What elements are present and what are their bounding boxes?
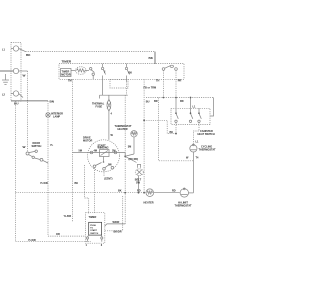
- wire BK/OR vertical: [122, 196, 124, 231]
- neutral supply wire: [0, 70, 13, 72]
- wire contact 3 down: [126, 76, 128, 82]
- svg-text:LAMP: LAMP: [53, 116, 60, 119]
- svg-text:2M: 2M: [112, 150, 115, 153]
- heater line left segment: [16, 192, 147, 194]
- svg-text:HEATER: HEATER: [144, 202, 154, 205]
- wire YL/OR timer to push-to-start: [72, 79, 74, 222]
- svg-text:MOTOR: MOTOR: [83, 140, 92, 143]
- interior lamp DS1: [46, 113, 50, 117]
- svg-text:HEATER: HEATER: [118, 128, 128, 131]
- svg-text:BK: BK: [170, 131, 174, 134]
- motor winding line with terminals 4M 2M: [88, 151, 120, 154]
- wire OR to push-to-start: [48, 235, 86, 237]
- label THERMAL FUSE: [92, 103, 105, 109]
- terminal block TB1: [11, 43, 21, 102]
- push-to-start timer box: [86, 213, 105, 244]
- timer motor M2: [61, 69, 72, 77]
- terminal N: [13, 68, 18, 73]
- svg-text:RD: RD: [180, 100, 184, 103]
- motor protector box: [100, 150, 110, 157]
- junction feed x190.5: [190, 97, 192, 99]
- wire YL/OR lamp to push-to-start: [47, 117, 49, 236]
- junction motor right: [124, 156, 126, 158]
- hi-limit thermostat TS2: [180, 188, 188, 197]
- svg-text:TIMER: TIMER: [62, 60, 72, 64]
- wire contact 3 to cycling thermostat: [193, 123, 199, 145]
- wire motor right to junction: [119, 153, 125, 157]
- wire contact 2 down: [102, 76, 104, 96]
- wire down into timer contact: [154, 52, 156, 64]
- switch blade at L1: [19, 49, 26, 52]
- wire heat switch to cycling thermostat: [159, 98, 194, 161]
- terminal L1: [11, 46, 19, 51]
- timer line contact 4: [162, 65, 177, 70]
- wire BK/OR push-to-start right: [105, 230, 123, 232]
- svg-text:HEAT SWITCH: HEAT SWITCH: [198, 133, 215, 136]
- timer contact 2: [101, 64, 105, 75]
- svg-text:YL: YL: [50, 144, 54, 147]
- wire to interior lamp: [47, 101, 49, 113]
- wire stub below motor: [103, 170, 105, 176]
- heat switch contact 3: [198, 108, 202, 122]
- label THERMOSTAT HEATER: [115, 125, 132, 131]
- wire TH stub to heat switch feed: [163, 70, 165, 97]
- wire fuse top stub: [108, 95, 110, 99]
- belt switch connector pins: [137, 165, 141, 168]
- svg-text:BU: BU: [146, 101, 150, 104]
- wire BK from L1 to timer: [26, 51, 156, 53]
- heater line right segment: [154, 192, 180, 194]
- wire long vertical to push-to-start W/OR: [124, 95, 126, 224]
- heat switch feed wire: [146, 97, 214, 99]
- svg-text:TH: TH: [156, 79, 160, 82]
- switch blade at L2: [19, 94, 23, 98]
- wire centrifugal down: [94, 168, 96, 213]
- terminal L2: [11, 91, 19, 96]
- junction x144 y120: [143, 119, 145, 121]
- svg-text:3M: 3M: [128, 146, 131, 149]
- push-to-start terminals: [86, 235, 103, 242]
- wire motor left to YL/OR line: [73, 152, 88, 154]
- svg-text:YL/OR: YL/OR: [28, 239, 36, 242]
- junction feed x163.5: [163, 97, 165, 99]
- wire W neutral to door switch: [19, 71, 28, 152]
- wire belt switch to heater line: [138, 176, 140, 193]
- svg-text:5M: 5M: [79, 150, 82, 153]
- svg-text:BK: BK: [75, 182, 79, 185]
- wire BU horizontal: [11, 100, 48, 102]
- label HI-LIMIT THERMOSTAT: [175, 202, 192, 208]
- junction heater line: [124, 192, 126, 194]
- svg-text:FB or TRM: FB or TRM: [144, 86, 157, 89]
- label DRIVE MOTOR: [83, 137, 92, 143]
- svg-text:BK/OR: BK/OR: [114, 230, 122, 233]
- svg-text:W: W: [23, 145, 26, 149]
- heat switch contact 1: [175, 98, 179, 123]
- wire junction to belt switch: [125, 156, 136, 162]
- wire to motor junction: [126, 154, 134, 156]
- cycling thermostat TS1: [190, 144, 197, 152]
- svg-text:4M: 4M: [94, 150, 97, 153]
- wire feed right edge drop: [210, 98, 214, 117]
- label START WINDING: [98, 145, 109, 150]
- svg-text:BK: BK: [118, 190, 122, 193]
- label CANISTER HEAT SWITCH: [198, 130, 215, 136]
- svg-text:SWITCH: SWITCH: [32, 145, 42, 148]
- timer contact 1: [90, 68, 95, 80]
- canister heat switch box: [171, 108, 210, 124]
- heater HE1: [146, 189, 154, 197]
- wire W/OR push-to-start up: [105, 224, 125, 226]
- wire BU L2 down to heater line: [15, 101, 17, 242]
- wire contact 3 to fuse line: [126, 81, 128, 95]
- junction belt-heater: [138, 192, 140, 194]
- push to start switch S3: [89, 222, 102, 235]
- door switch S1: [26, 150, 43, 161]
- svg-text:TM: TM: [68, 80, 72, 83]
- junction heater line x144: [143, 192, 145, 194]
- svg-text:BK: BK: [129, 72, 133, 75]
- drive motor M1 outline: [88, 140, 120, 172]
- svg-text:(CENT): (CENT): [104, 178, 113, 181]
- wire thermostat heater down: [133, 137, 135, 154]
- svg-text:BK: BK: [149, 56, 154, 60]
- timer assembly box: [59, 64, 184, 80]
- label BELT SW: [135, 179, 142, 185]
- timer sub box: [110, 80, 128, 89]
- svg-text:BK: BK: [26, 53, 31, 57]
- wire feed to contact 2: [190, 98, 192, 109]
- svg-text:W: W: [23, 74, 26, 78]
- wire PR stub to heat switch feed: [175, 70, 177, 97]
- svg-text:TO: TO: [90, 228, 93, 230]
- svg-text:BR: BR: [154, 100, 158, 103]
- wire centrifugal to push-to-start: [85, 165, 89, 214]
- svg-text:THERMOSTAT: THERMOSTAT: [199, 149, 216, 152]
- svg-text:PUSH: PUSH: [90, 225, 96, 227]
- timer motor coil winding: [71, 67, 89, 75]
- label DOOR SWITCH: [32, 142, 42, 148]
- svg-text:MOTOR: MOTOR: [61, 73, 70, 76]
- svg-text:FUSE: FUSE: [96, 106, 103, 109]
- svg-text:PR: PR: [178, 79, 182, 82]
- label INTERIOR LAMP: [51, 113, 63, 119]
- belt switch S2: [135, 169, 143, 176]
- junction x176 y133.6: [175, 133, 177, 135]
- svg-text:START: START: [90, 229, 97, 232]
- svg-text:W/OR: W/OR: [113, 221, 120, 224]
- timer contact 3: [125, 64, 129, 75]
- wire BU timer to heater line: [143, 79, 145, 192]
- svg-text:RD: RD: [172, 190, 176, 193]
- wire YL/OR bottom: [16, 241, 92, 243]
- wire fuse to drive motor: [108, 111, 110, 140]
- label CYCLING THERMOSTAT: [199, 146, 216, 152]
- svg-text:BU: BU: [14, 101, 19, 105]
- centrifugal switch: [93, 157, 114, 171]
- svg-text:YL/OR: YL/OR: [64, 215, 72, 218]
- wire BK heat switch bottom: [144, 120, 176, 133]
- wire door switch to lamp line: [43, 160, 48, 163]
- svg-text:TIMER: TIMER: [89, 216, 97, 219]
- wire above thermal fuse: [100, 95, 128, 98]
- heat switch contact 2: [189, 108, 193, 122]
- svg-text:SW: SW: [136, 182, 141, 185]
- svg-text:THERMOSTAT: THERMOSTAT: [175, 205, 192, 208]
- svg-text:OR: OR: [56, 233, 60, 236]
- thermal fuse F1: [107, 100, 111, 112]
- ground: [2, 74, 9, 84]
- thermostat heater R1: [131, 131, 137, 137]
- svg-text:SWITCH: SWITCH: [90, 233, 98, 235]
- svg-text:YL/OR: YL/OR: [40, 182, 48, 185]
- wire hi-limit to cycling thermostat: [189, 152, 194, 193]
- svg-text:BN: BN: [50, 100, 55, 104]
- junction feed x176: [175, 97, 177, 99]
